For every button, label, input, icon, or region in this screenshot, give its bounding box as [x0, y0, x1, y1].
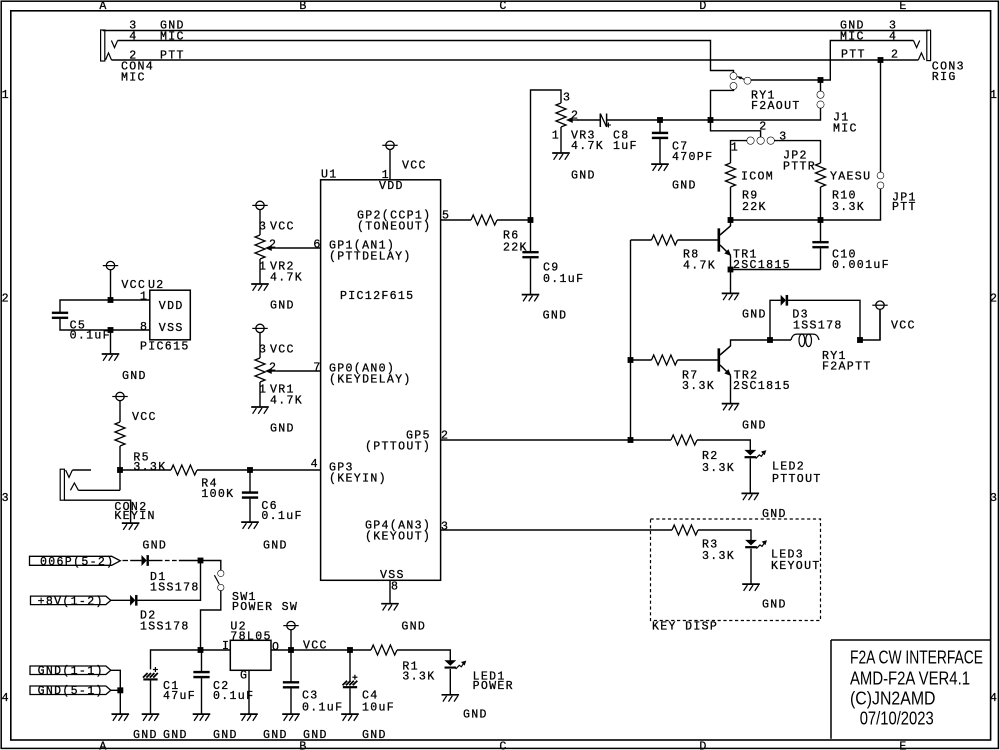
ground CON2 — [122, 523, 140, 530]
wire C2 stem — [201, 650, 203, 714]
resistor R9 22K — [726, 163, 736, 187]
label R8 4.7K — [683, 249, 716, 273]
label GND LED1 — [463, 709, 488, 722]
svg-text:0.001uF: 0.001uF — [832, 259, 890, 272]
junction coil to VCC node — [857, 337, 863, 343]
label R6 22K — [503, 230, 528, 255]
svg-text:4: 4 — [2, 692, 10, 705]
wire D2 to diode OR node — [138, 561, 201, 601]
label CON4 pin numbers and names — [121, 20, 185, 85]
label GND C6 — [263, 540, 288, 553]
capacitor C3 0.1uF — [283, 681, 299, 688]
label GND VR2 — [270, 300, 295, 313]
svg-text:F2APTT: F2APTT — [822, 361, 872, 374]
label R2 3.3K — [702, 450, 735, 475]
svg-text:GND: GND — [742, 309, 767, 322]
wire bus to R8 — [631, 239, 652, 241]
svg-text:C: C — [499, 0, 507, 13]
junction VCC output node — [288, 647, 294, 653]
junction audio node at RY1 branch — [708, 117, 714, 123]
label GND TR2 — [742, 420, 767, 433]
label C2 0.1uF — [213, 680, 254, 703]
led LED3 KEYOUT — [745, 540, 766, 549]
svg-text:1SS178: 1SS178 — [140, 621, 190, 634]
junction input rail at SW1/C2 — [198, 647, 204, 653]
wire CON2 contact to keyin node — [78, 489, 120, 491]
svg-text:VCC: VCC — [132, 411, 157, 424]
svg-text:GND: GND — [270, 300, 295, 313]
label C7 470PF — [672, 141, 713, 164]
wire VR1 pin1 to ground — [259, 382, 261, 406]
label RY1 F2APTT — [822, 350, 872, 374]
svg-text:F2AOUT: F2AOUT — [751, 100, 801, 113]
svg-text:U2: U2 — [148, 279, 165, 292]
label J1 MIC — [833, 112, 858, 136]
wire TR1 collector — [730, 220, 732, 226]
ground VR2 — [251, 284, 269, 291]
wire C8 to J1 node — [606, 119, 608, 121]
label C5 0.1uF — [70, 320, 111, 343]
wire TR2 emitter to ground — [730, 376, 732, 403]
diode D2 1SS178 — [130, 595, 137, 605]
svg-text:3.3K: 3.3K — [682, 380, 715, 393]
svg-text:006P(5-2): 006P(5-2) — [40, 556, 114, 569]
label KEY DISP — [652, 620, 718, 633]
svg-text:KEY DISP: KEY DISP — [652, 620, 718, 633]
power VCC U1 VDD pin1 — [382, 141, 397, 180]
ground TR2 emitter — [722, 404, 740, 411]
svg-text:GND: GND — [672, 180, 697, 193]
ground C6 — [241, 522, 259, 529]
label U1 — [321, 169, 338, 182]
wire keyin node down to CON2 contact — [119, 470, 121, 490]
junction TR1 emitter — [728, 267, 734, 273]
capacitor C8 1uF polarized — [600, 114, 611, 128]
wire LED2 to ground — [749, 458, 751, 492]
label C8 1uF — [613, 130, 638, 154]
svg-text:GND: GND — [762, 599, 787, 612]
wire JP2 pin3 to R10 — [774, 141, 820, 163]
svg-text:PIC615: PIC615 — [140, 341, 190, 354]
svg-text:1uF: 1uF — [613, 140, 638, 153]
svg-text:2: 2 — [990, 292, 998, 305]
dashed box KEY DISP option — [651, 519, 821, 621]
junction C4 tap — [347, 647, 353, 653]
label VCC VR2 — [259, 221, 295, 234]
svg-text:PTT: PTT — [892, 201, 917, 214]
svg-text:8: 8 — [391, 581, 399, 594]
label VCC R5 — [132, 411, 157, 424]
svg-text:78L05: 78L05 — [230, 631, 271, 644]
ic U2 78L05 body — [230, 640, 271, 670]
wire R6 to tone node — [497, 219, 531, 221]
label GND U2 78L05 — [263, 729, 288, 742]
svg-text:470PF: 470PF — [672, 151, 713, 164]
capacitor C10 0.001uF stem — [820, 220, 822, 270]
ground C4 — [341, 714, 359, 721]
power VCC regulator output — [283, 621, 298, 650]
wire keyin node to R4 — [120, 469, 171, 471]
junction C6 tap — [247, 467, 253, 473]
label C9 0.1uF — [543, 262, 584, 286]
ground U1 VSS — [381, 604, 399, 611]
wire GP2 pin5 to R6 — [441, 219, 471, 221]
svg-text:E: E — [899, 0, 907, 13]
ic U2 PIC615 body — [150, 290, 191, 340]
wire R3 to LED3 — [698, 530, 751, 541]
wire MIC to CON3 from RY1 common — [751, 41, 914, 81]
label GND VR3 — [571, 170, 596, 183]
resistor R4 100K — [171, 465, 197, 475]
connector CON4 MIC jack — [101, 30, 118, 61]
svg-text:YAESU: YAESU — [830, 171, 871, 184]
label VR2 pins and value — [259, 239, 303, 285]
power VCC VR2 — [252, 201, 267, 235]
wire GP5 pin2 to R2 — [441, 439, 671, 441]
capacitor C4 10uF — [343, 675, 358, 688]
svg-text:VCC: VCC — [891, 320, 916, 333]
svg-text:A: A — [99, 0, 107, 13]
label VR3 pins and value — [552, 92, 604, 154]
svg-text:E: E — [899, 740, 907, 750]
svg-text:GND: GND — [571, 170, 596, 183]
svg-text:2SC1815: 2SC1815 — [733, 380, 791, 393]
svg-text:A: A — [99, 740, 107, 750]
svg-text:GND: GND — [122, 370, 147, 383]
wire VR2 pin1 to ground — [259, 259, 261, 283]
svg-text:1: 1 — [731, 142, 739, 155]
junction C10 node — [818, 217, 824, 223]
svg-text:POWER: POWER — [473, 680, 514, 693]
ground VR3 — [552, 153, 570, 160]
svg-text:4: 4 — [129, 31, 137, 44]
svg-text:D: D — [699, 740, 707, 750]
svg-text:3.3K: 3.3K — [402, 670, 435, 683]
ground U2 PIC615 — [102, 354, 120, 361]
svg-text:47uF: 47uF — [163, 690, 196, 703]
transistor TR1 2SC1815 — [718, 226, 731, 256]
svg-text:GND: GND — [270, 423, 295, 436]
svg-text:O: O — [272, 641, 280, 654]
junction at PTT to JP1 — [878, 57, 884, 63]
label JP2 pin numbers — [731, 121, 788, 155]
svg-text:1SS178: 1SS178 — [793, 320, 843, 333]
junction ground at pin8 — [108, 327, 114, 333]
wire flag node to ground — [119, 690, 121, 713]
svg-text:0.1uF: 0.1uF — [302, 701, 343, 714]
wire R1 to LED1 — [397, 650, 450, 661]
junction R5 keyin node — [117, 467, 123, 473]
svg-text:4.7K: 4.7K — [571, 140, 604, 153]
diode D3 1SS178 — [781, 295, 788, 305]
svg-text:RIG: RIG — [932, 71, 957, 84]
wire C7 stem — [659, 120, 661, 163]
wire U2 ground pin — [248, 670, 250, 713]
label GND LED3 — [762, 599, 787, 612]
svg-text:GND: GND — [263, 540, 288, 553]
wire GP4 pin3 to R3 — [441, 529, 672, 531]
connector CON2 KEYIN jack — [60, 469, 78, 500]
power VCC relay coil — [872, 301, 887, 340]
svg-text:6: 6 — [313, 239, 321, 252]
capacitor C1 47uF — [143, 667, 158, 680]
svg-text:3: 3 — [990, 492, 998, 505]
svg-text:(KEYOUT): (KEYOUT) — [365, 531, 431, 544]
wire 006P to D1 dashed — [123, 560, 201, 562]
wire VR1 wiper to U1 — [277, 370, 321, 372]
ground C3 — [282, 714, 300, 721]
junction RY1 common to J1 — [818, 77, 824, 83]
wire U2 pin1 loop to C5 — [60, 300, 150, 312]
svg-text:GND: GND — [303, 729, 328, 742]
potentiometer VR1 4.7K — [255, 358, 277, 382]
wire VR3 pin1 to ground — [560, 127, 562, 152]
wire R4 to GP3 pin4 — [197, 469, 321, 471]
wire D3 cathode to coil right — [788, 300, 860, 340]
resistor R6 22K — [471, 215, 497, 225]
power VCC VR1 — [252, 324, 267, 358]
junction GP5 bus — [628, 437, 634, 443]
svg-text:1: 1 — [2, 89, 10, 102]
wire LED1 to ground — [449, 669, 451, 694]
capacitor C5 0.1uF — [52, 312, 68, 319]
label R7 3.3K — [682, 370, 715, 393]
svg-text:VCC: VCC — [402, 160, 427, 173]
label U1 pin numbers — [311, 169, 451, 593]
svg-text:ICOM: ICOM — [741, 171, 774, 184]
svg-text:PTTR: PTTR — [783, 161, 816, 174]
ground TR1 emitter — [722, 293, 740, 300]
svg-text:2: 2 — [2, 292, 10, 305]
svg-text:4.7K: 4.7K — [270, 272, 303, 285]
svg-text:VCC: VCC — [270, 221, 295, 234]
svg-text:D: D — [699, 0, 707, 13]
svg-text:0.1uF: 0.1uF — [213, 690, 254, 703]
label GND C1 — [163, 729, 188, 742]
wire VR2 wiper to U1 — [277, 247, 321, 249]
wire J1 pin2 to audio node — [607, 108, 821, 120]
wire R2 to LED2 — [697, 440, 750, 451]
svg-text:100K: 100K — [201, 488, 234, 501]
svg-text:2SC1815: 2SC1815 — [733, 259, 791, 272]
net flag GND(5-1) — [30, 685, 111, 698]
svg-text:VCC: VCC — [303, 639, 328, 652]
svg-text:F2A CW INTERFACE: F2A CW INTERFACE — [850, 647, 983, 668]
label C10 0.001uF — [832, 249, 890, 273]
ground LED2 — [742, 493, 760, 500]
wire VR3 wiper to C8 — [577, 119, 600, 121]
svg-text:GND(1-1): GND(1-1) — [38, 665, 104, 678]
svg-text:MIC: MIC — [833, 123, 858, 136]
ground LED1 — [442, 695, 460, 702]
svg-text:GND: GND — [213, 729, 238, 742]
svg-text:(PTTDELAY): (PTTDELAY) — [329, 251, 412, 264]
net flag 006P(5-2) — [30, 556, 121, 569]
svg-text:B: B — [299, 0, 307, 13]
svg-text:0.1uF: 0.1uF — [543, 273, 584, 286]
resistor R10 3.3K — [816, 163, 826, 187]
switch SW1 POWER — [214, 571, 223, 591]
svg-text:3.3K: 3.3K — [133, 461, 166, 474]
label VR1 pins and value — [259, 362, 303, 408]
label C3 0.1uF — [302, 690, 343, 715]
wire D3 branch left riser — [770, 300, 781, 340]
resistor R2 3.3K — [671, 435, 697, 445]
ground U2 78L05 — [240, 714, 258, 721]
wire C6 stem — [249, 470, 251, 522]
label D1 1SS178 — [150, 571, 200, 594]
wire audio node to JP2 pin2 — [711, 120, 761, 137]
label TR1 2SC1815 — [733, 249, 791, 273]
label R3 3.3K — [702, 539, 735, 564]
svg-text:GND: GND — [133, 729, 158, 742]
label GND CON2 — [142, 540, 167, 553]
label CON3 pin numbers and names — [840, 20, 965, 84]
label C6 0.1uF — [261, 500, 302, 523]
label VCC VR1 — [259, 344, 295, 357]
svg-text:4: 4 — [990, 692, 998, 705]
wire bus to R7 — [631, 359, 652, 361]
jumper JP1 PTT — [877, 172, 883, 188]
svg-text:MIC: MIC — [121, 72, 146, 85]
svg-text:(TONEOUT): (TONEOUT) — [357, 221, 431, 234]
label SW1 POWER SW — [232, 591, 298, 614]
label CON2 KEYIN — [114, 501, 155, 523]
transistor TR2 2SC1815 — [718, 346, 731, 376]
svg-text:3: 3 — [779, 131, 787, 144]
label VCC U1 — [402, 160, 427, 173]
wire input rail — [151, 650, 231, 669]
wire +8V to D2 — [111, 599, 130, 601]
resistor R8 4.7K — [652, 235, 678, 245]
label LED2 PTTOUT — [772, 461, 822, 487]
ground LED3 — [742, 584, 760, 591]
relay coil RY1 F2APTT — [791, 334, 819, 347]
wire LED3 to ground — [750, 549, 752, 584]
label VCC output — [303, 639, 328, 652]
net flag +8V(1-2) — [31, 595, 111, 608]
wire tone node riser to VR3 — [531, 90, 562, 220]
svg-text:GND: GND — [742, 420, 767, 433]
label GND VR1 — [270, 423, 295, 436]
potentiometer VR2 4.7K — [255, 235, 277, 259]
title block box — [831, 640, 990, 739]
svg-text:1: 1 — [990, 89, 998, 102]
junction GND flags — [118, 688, 124, 694]
label D2 1SS178 — [140, 610, 190, 634]
svg-text:7: 7 — [313, 362, 321, 375]
wire GND(1-1) to ground node — [111, 670, 121, 690]
wire OR node to SW1 — [201, 561, 221, 571]
resistor R3 3.3K — [672, 525, 698, 535]
wire CON2 tip stub — [72, 469, 91, 471]
capacitor C6 0.1uF — [242, 492, 258, 499]
label GND U1 — [401, 620, 426, 633]
jumper J1 MIC — [817, 91, 824, 108]
wire J1 drop from RY1 common node — [820, 80, 822, 92]
svg-text:3: 3 — [259, 344, 267, 357]
resistor R7 3.3K — [652, 355, 678, 365]
svg-text:4.7K: 4.7K — [683, 260, 716, 273]
junction D3 anode node — [767, 337, 773, 343]
wire pin8 ground stem — [110, 330, 112, 353]
connector CON3 RIG jack — [914, 30, 931, 60]
junction VCC at pin1 — [108, 297, 114, 303]
svg-text:I: I — [222, 640, 230, 653]
label C4 10uF — [362, 690, 395, 715]
svg-text:22K: 22K — [742, 201, 767, 214]
svg-text:3.3K: 3.3K — [702, 462, 735, 475]
svg-text:1: 1 — [552, 130, 560, 143]
label LED1 POWER — [473, 670, 514, 693]
label D3 1SS178 — [792, 309, 842, 333]
svg-text:GND: GND — [401, 620, 426, 633]
junction diode OR node — [198, 558, 204, 564]
svg-text:2: 2 — [269, 362, 277, 375]
label GND C3 — [303, 729, 328, 742]
svg-text:VDD: VDD — [159, 300, 184, 313]
svg-text:+8V(1-2): +8V(1-2) — [38, 595, 104, 608]
svg-text:0.1uF: 0.1uF — [261, 510, 302, 523]
svg-text:3: 3 — [563, 92, 571, 105]
svg-text:VCC: VCC — [270, 344, 295, 357]
junction C9 tap — [528, 217, 534, 223]
label U2 78L05 — [222, 621, 280, 683]
wire R8 to TR1 base — [678, 239, 718, 241]
wire PTT (CON4 pin2 to CON3 pin2) — [112, 59, 919, 61]
wire MIC from CON4 to RY1 contact — [118, 41, 734, 73]
capacitor C7 470PF — [652, 132, 668, 139]
label R1 3.3K — [402, 660, 435, 683]
svg-text:LED2: LED2 — [772, 461, 805, 474]
svg-text:1: 1 — [140, 290, 148, 303]
capacitor C2 0.1uF — [194, 671, 210, 678]
wire R9 to base node — [730, 187, 732, 220]
wire TR1 emitter — [730, 256, 732, 293]
svg-text:4: 4 — [311, 458, 319, 471]
wire C9 stem — [530, 220, 532, 294]
svg-text:2: 2 — [759, 121, 767, 134]
svg-text:G: G — [240, 670, 248, 683]
label R10 3.3K YAESU — [830, 171, 871, 215]
junction R7 tap — [628, 357, 634, 363]
potentiometer VR3 4.7K — [556, 103, 578, 127]
wire GND(5-1) to ground node — [111, 689, 121, 691]
ground flags — [112, 714, 130, 721]
svg-text:3: 3 — [441, 521, 449, 534]
svg-text:4.7K: 4.7K — [270, 395, 303, 408]
label U1 internals — [329, 180, 431, 582]
label GND C9 — [543, 310, 568, 323]
ground VR1 — [251, 407, 269, 414]
wire RY1 lower contact to audio node — [711, 89, 734, 120]
ground C2 — [193, 714, 211, 721]
wire R5 to keyin node — [119, 446, 121, 470]
junction TR1 collector node — [728, 217, 734, 223]
power VCC U2 PIC615 — [103, 261, 118, 300]
power VCC R5 — [112, 392, 127, 422]
svg-text:3.3K: 3.3K — [832, 201, 865, 214]
label C1 47uF — [163, 680, 196, 703]
wire GND bus (CON4 pin3 to CON3 pin3) — [103, 30, 929, 32]
diode D1 1SS178 — [142, 555, 149, 565]
resistor R5 3.3K — [115, 422, 125, 446]
svg-text:(KEYDELAY): (KEYDELAY) — [329, 374, 412, 387]
svg-text:GND: GND — [543, 310, 568, 323]
svg-text:(KEYIN): (KEYIN) — [329, 473, 387, 486]
svg-text:GND: GND — [463, 709, 488, 722]
label GND C4 — [362, 729, 387, 742]
